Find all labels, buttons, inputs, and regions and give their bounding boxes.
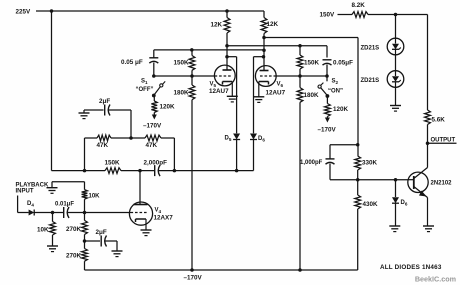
svg-text:S2: S2	[332, 79, 339, 86]
resistor 12K (right, V6 plate load)	[261, 11, 278, 71]
node: OUTPUT tap	[426, 137, 457, 145]
svg-text:V4: V4	[155, 208, 162, 215]
svg-text:0.05μF: 0.05μF	[333, 60, 353, 67]
capacitor 2uF (feedback, to ground)	[84, 98, 131, 138]
capacitor 0.05uF (right, S2 coupling)	[323, 60, 354, 77]
svg-text:47K: 47K	[146, 142, 158, 149]
svg-text:D6: D6	[401, 200, 408, 207]
transistor Q1 2N2102	[408, 166, 452, 226]
capacitor 2uF (V4 bias, to ground)	[85, 229, 118, 251]
svg-text:OUTPUT: OUTPUT	[431, 137, 456, 143]
diode D6	[250, 134, 265, 171]
svg-text:BeekIC.com: BeekIC.com	[415, 275, 456, 284]
switch S2 "ON"	[318, 76, 343, 98]
resistor 10K (grid leak)	[82, 182, 101, 213]
ground (input)	[47, 182, 85, 194]
svg-text:120K: 120K	[333, 106, 349, 113]
svg-text:2μF: 2μF	[99, 98, 110, 105]
power label 150V	[320, 12, 353, 19]
svg-text:430K: 430K	[363, 201, 379, 208]
resistor 270K (upper)	[66, 213, 87, 249]
wire: left supply drop from 225V rail	[51, 11, 53, 171]
svg-text:225V: 225V	[16, 9, 32, 16]
svg-text:12K: 12K	[211, 22, 223, 29]
svg-text:2N2102: 2N2102	[431, 181, 453, 187]
tube V6 12AU7	[255, 66, 285, 97]
node: V5 plate elbow	[225, 55, 229, 59]
ground (2uF feedback)	[79, 112, 90, 114]
svg-text:10K: 10K	[37, 227, 49, 234]
svg-text:12AU7: 12AU7	[266, 90, 286, 97]
svg-text:S1: S1	[141, 79, 148, 86]
svg-text:V6: V6	[277, 82, 284, 89]
node: zener branch	[394, 13, 398, 17]
svg-text:ZD21S: ZD21S	[361, 46, 380, 52]
svg-text:12K: 12K	[267, 21, 279, 28]
svg-text:D6: D6	[258, 136, 265, 143]
svg-text:ZD21S: ZD21S	[361, 78, 380, 84]
capacitor 0.01uF	[55, 202, 131, 218]
diode D4	[18, 196, 63, 216]
wire: V4 plate line with 150K and 2000pF	[52, 169, 106, 173]
tube V4 12AX7	[129, 171, 173, 230]
node: input / 10K shunt	[51, 211, 55, 215]
svg-text:0.01μF: 0.01μF	[55, 202, 74, 208]
switch S1 "OFF"	[136, 79, 166, 98]
ground (10K input shunt)	[47, 245, 58, 247]
wire: V5 grid line	[152, 74, 214, 78]
resistor 10K (input shunt)	[37, 213, 55, 247]
svg-text:1,000pF: 1,000pF	[300, 160, 323, 166]
power rail 225V	[16, 9, 265, 16]
resistor 270K (lower)	[66, 249, 87, 271]
resistor 150K (left chain)	[173, 50, 194, 76]
resistor 47K (right)	[145, 135, 174, 171]
wire: 0.05uF/150K top line (H5)	[154, 48, 266, 57]
svg-text:D4: D4	[27, 201, 34, 208]
capacitor 1,000pF	[300, 145, 358, 180]
wire: V5 plate node to 150K/0.05uF (H4)	[225, 44, 327, 57]
ground (emitter)	[423, 225, 434, 227]
svg-text:8.2K: 8.2K	[352, 2, 366, 9]
resistor 180K (left chain)	[173, 76, 194, 270]
resistor 330K	[355, 143, 378, 180]
ground (base clamp diode)	[389, 225, 400, 227]
diode D5	[225, 134, 241, 171]
svg-text:10K: 10K	[89, 194, 101, 200]
svg-text:47K: 47K	[97, 142, 109, 149]
ground (2uF bias)	[112, 250, 123, 252]
svg-text:270K: 270K	[66, 226, 82, 233]
svg-text:“OFF”: “OFF”	[136, 87, 154, 93]
resistor 180K (right chain)	[297, 76, 319, 270]
svg-text:PLAYBACK: PLAYBACK	[16, 183, 49, 189]
wire: bottom -170V rail	[85, 268, 358, 272]
svg-text:2μF: 2μF	[96, 229, 107, 236]
svg-text:270K: 270K	[66, 253, 82, 260]
resistor 47K (left)	[97, 135, 146, 149]
svg-text:150K: 150K	[304, 60, 320, 67]
ground (V4 cathode)	[141, 229, 152, 231]
svg-text:INPUT: INPUT	[16, 189, 34, 195]
capacitor 2,000pF (coupling)	[144, 160, 254, 177]
resistor 150K (right chain)	[297, 46, 319, 76]
svg-text:120K: 120K	[160, 104, 176, 111]
resistor 12K (left, V5 plate load)	[211, 11, 230, 70]
svg-text:0.05 μF: 0.05 μF	[121, 59, 143, 66]
wire: elbow to diode D5 branch	[227, 57, 237, 134]
zener diode ZD21S (upper)	[361, 15, 404, 55]
svg-text:12AU7: 12AU7	[209, 88, 229, 95]
resistor 8.2K	[352, 2, 428, 17]
wire: right output branch	[427, 15, 429, 111]
svg-text:150V: 150V	[320, 12, 336, 19]
label PLAYBACK INPUT	[16, 183, 49, 195]
tube V5 12AU7	[209, 65, 235, 96]
svg-text:150K: 150K	[173, 60, 189, 67]
svg-text:–170V: –170V	[318, 127, 337, 134]
resistor 5.6K	[425, 110, 446, 166]
wire: 47K feedback rail	[85, 138, 98, 171]
ground (V6 cathode)	[253, 96, 264, 98]
resistor 150K (V4 plate load)	[105, 160, 155, 174]
svg-text:12AX7: 12AX7	[154, 215, 174, 222]
svg-text:330K: 330K	[362, 160, 378, 167]
svg-text:–170V: –170V	[143, 123, 162, 130]
node: V6 plate elbow	[262, 55, 266, 59]
wire: elbow to diode D6 branch	[254, 57, 264, 134]
wire: V6 grid line	[277, 74, 329, 78]
node: 12K R1 tap on rail	[225, 9, 229, 13]
wire: base line from divider	[330, 178, 408, 182]
svg-text:180K: 180K	[304, 92, 320, 99]
svg-text:5.6K: 5.6K	[432, 117, 446, 124]
capacitor 0.05uF (left, S1 coupling)	[121, 58, 158, 76]
zener diode ZD21S (lower)	[361, 55, 404, 88]
svg-text:“ON”: “ON”	[328, 89, 343, 95]
ground (V5 cathode)	[227, 95, 238, 97]
node: 225V rail to left column junction	[50, 9, 54, 13]
svg-text:D5: D5	[225, 136, 232, 143]
svg-text:150K: 150K	[105, 160, 121, 167]
svg-text:–170V: –170V	[184, 275, 203, 282]
resistor 430K	[355, 180, 378, 270]
node: 150K branch on H4	[298, 44, 302, 48]
svg-text:180K: 180K	[173, 90, 189, 97]
resistor 120K (S2 to -170V)	[325, 96, 349, 123]
svg-text:ALL DIODES 1N463: ALL DIODES 1N463	[380, 264, 442, 271]
wire: V6 plate node to 330K divider (H3)	[262, 36, 358, 156]
resistor 120K (S1 to -170V)	[151, 96, 175, 120]
diode D6 (base clamp)	[392, 180, 408, 226]
ground (zener string)	[390, 87, 401, 111]
